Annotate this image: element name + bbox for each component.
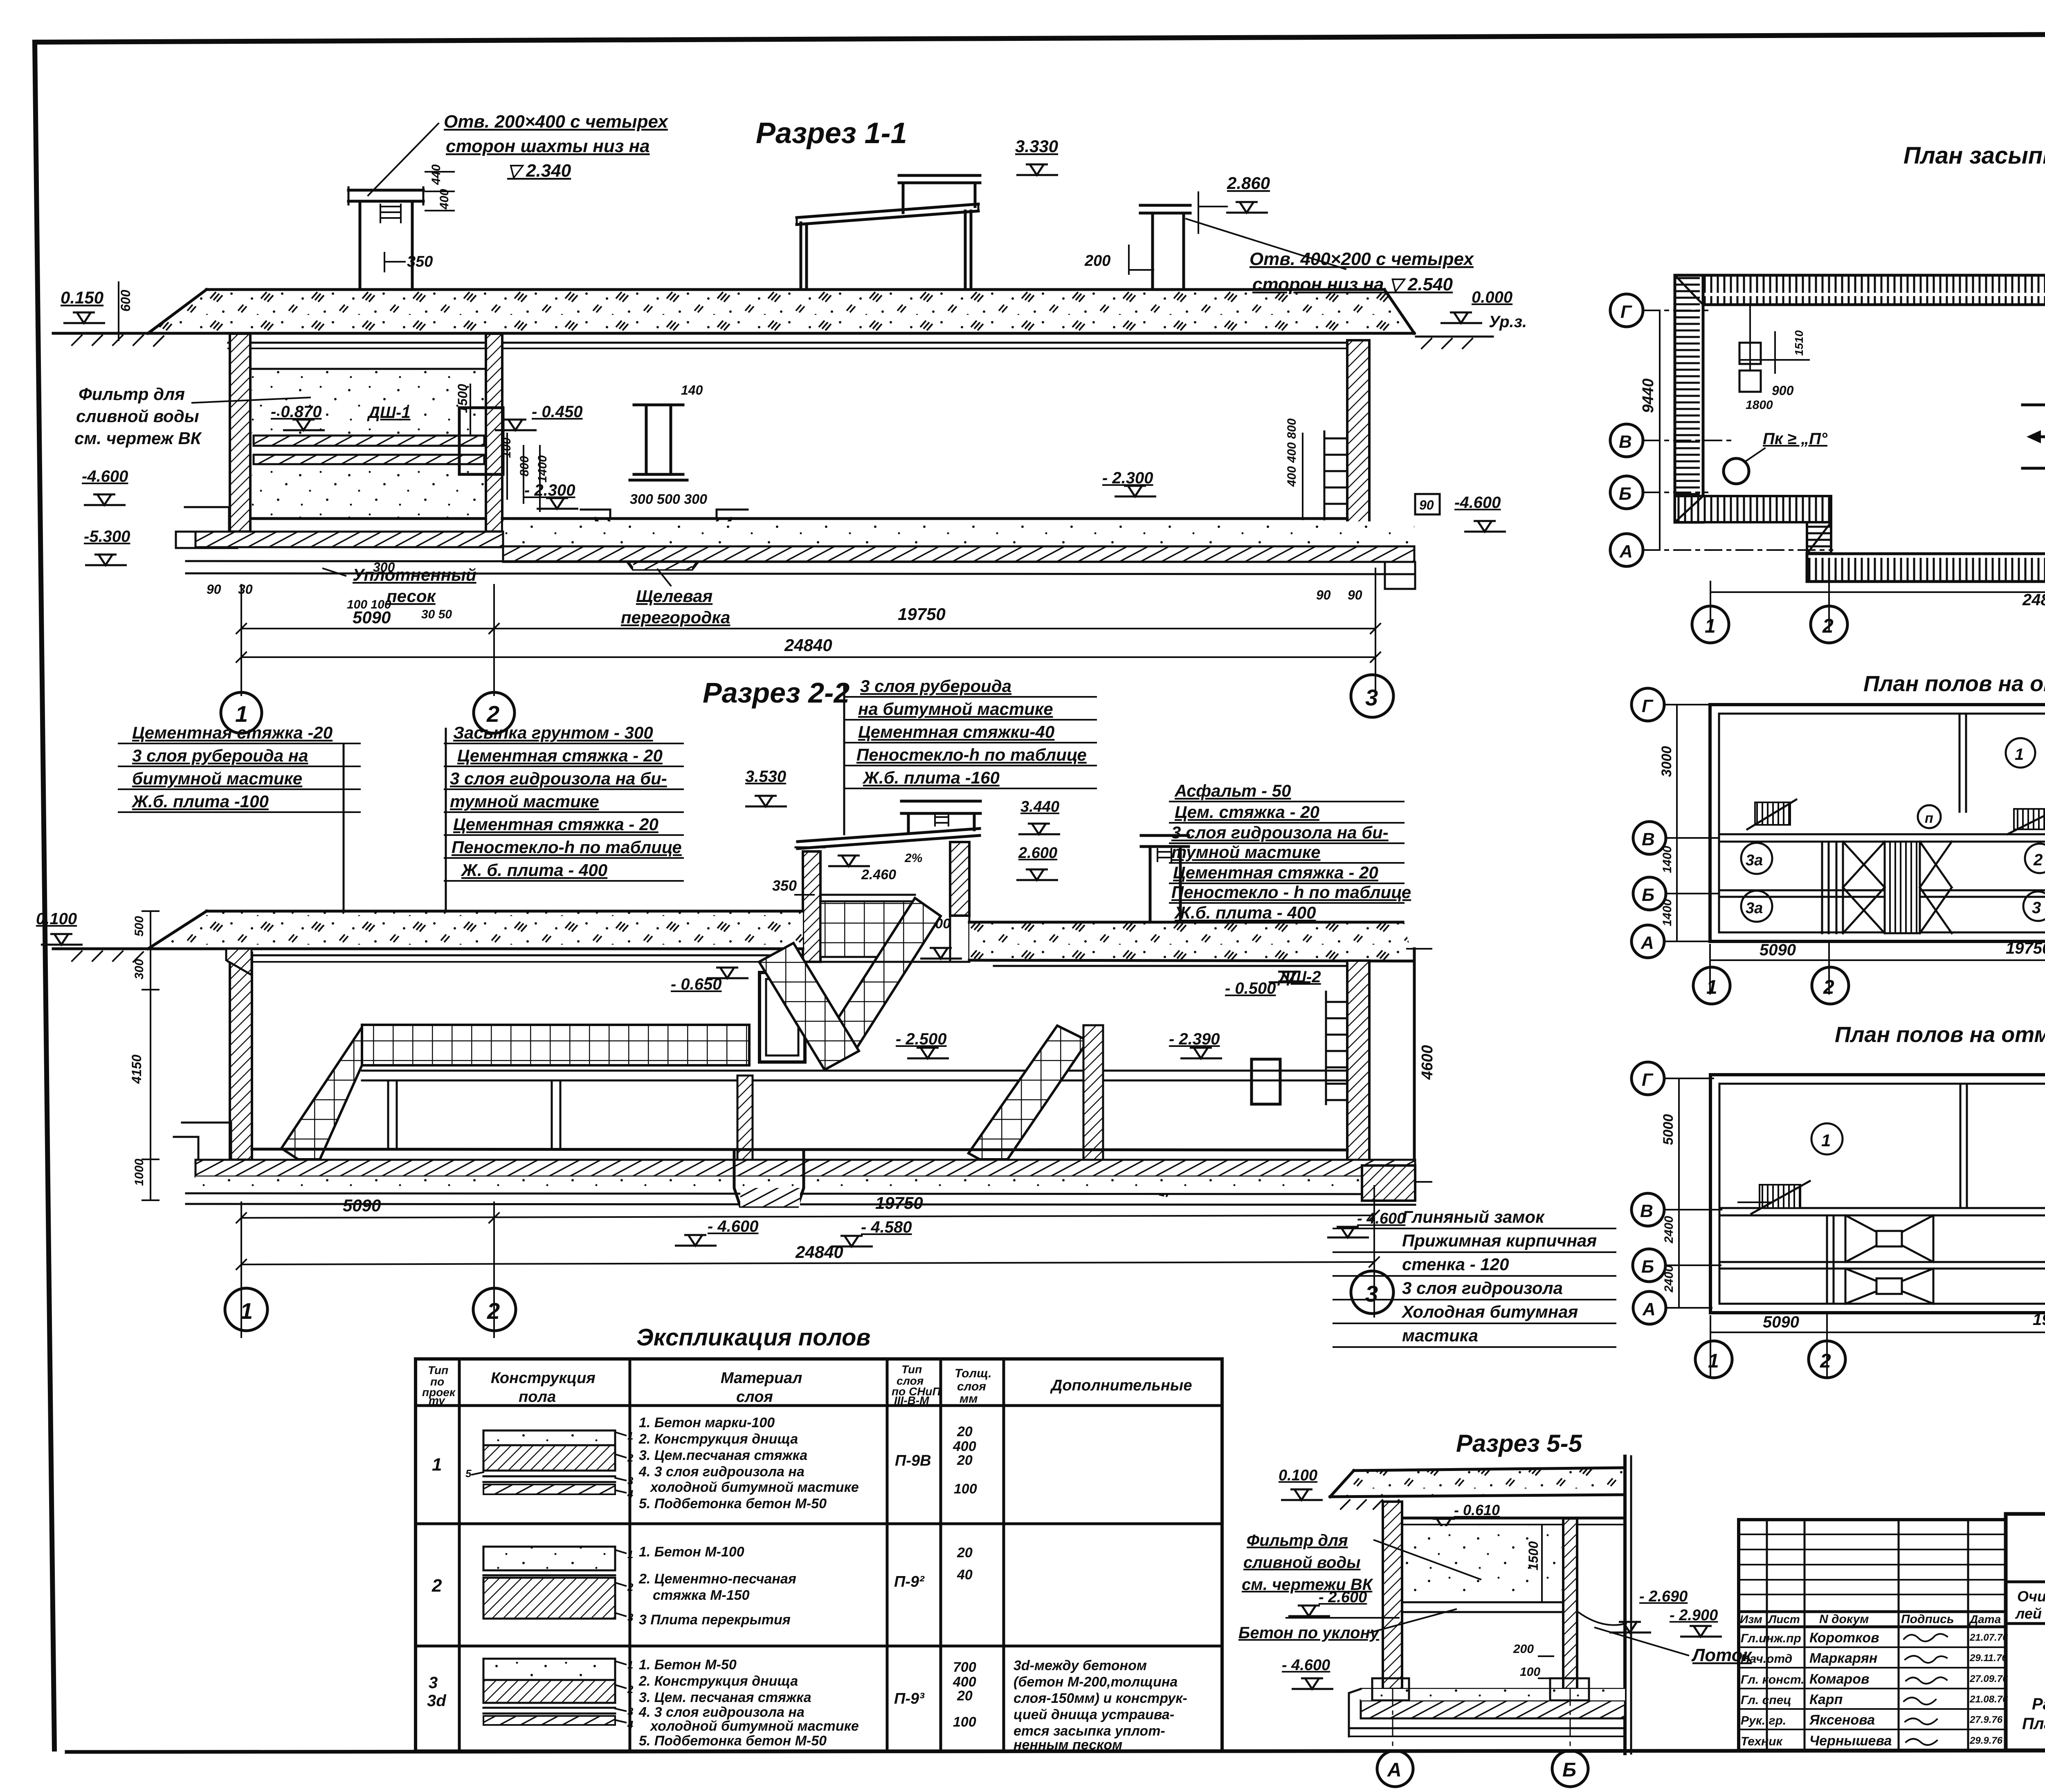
svg-text:200: 200 xyxy=(1084,252,1110,269)
svg-text:4: 4 xyxy=(627,1718,634,1731)
wall band bottom xyxy=(1807,554,2045,582)
roof band 5-5 xyxy=(1330,1468,1625,1497)
page frame xyxy=(35,33,2045,42)
svg-text:27.9.76: 27.9.76 xyxy=(1969,1714,2003,1725)
partition x4467 lower xyxy=(1827,1215,1834,1304)
top-left detail squares xyxy=(1739,343,1761,364)
walkway columns xyxy=(388,1080,560,1149)
svg-text:см. чертеж ВК: см. чертеж ВК xyxy=(74,429,202,448)
svg-text:4. 3 слоя гидроизола на: 4. 3 слоя гидроизола на xyxy=(638,1704,805,1720)
svg-text:Гл. конст.: Гл. конст. xyxy=(1741,1673,1805,1686)
svg-text:Планы полов на отм.-2.500;-4.5: Планы полов на отм.-2.500;-4.580 xyxy=(2022,1715,2045,1733)
roof slab band 2-2 left span xyxy=(148,911,803,949)
left tiled ramp xyxy=(281,1027,362,1170)
signatures xyxy=(1904,1634,1947,1745)
svg-text:1: 1 xyxy=(1708,1350,1719,1372)
svg-text:2: 2 xyxy=(627,1452,634,1464)
svg-text:5: 5 xyxy=(465,1467,472,1480)
svg-text:21.07.76: 21.07.76 xyxy=(1969,1632,2008,1643)
svg-text:5. Подбетонка бетон М-50: 5. Подбетонка бетон М-50 xyxy=(639,1496,827,1511)
svg-text:2.460: 2.460 xyxy=(861,867,896,883)
left wall 5-5 xyxy=(1383,1502,1402,1689)
wall on axis В xyxy=(1719,833,2045,835)
svg-text:24840: 24840 xyxy=(2022,591,2045,609)
svg-text:План засыпки: План засыпки xyxy=(1903,142,2045,169)
svg-text:битумной мастике: битумной мастике xyxy=(132,769,302,788)
outer walls xyxy=(1710,705,2045,941)
svg-text:1400: 1400 xyxy=(536,455,549,483)
svg-text:Яксенова: Яксенова xyxy=(1809,1712,1875,1728)
svg-text:500: 500 xyxy=(133,916,146,936)
svg-text:ДШ-2: ДШ-2 xyxy=(1277,968,1321,986)
bottom slab hatched bands xyxy=(196,532,503,547)
svg-text:тумной мастике: тумной мастике xyxy=(450,792,599,811)
monitor 2-2 chimney xyxy=(901,800,980,803)
svg-text:400 400 800: 400 400 800 xyxy=(1285,418,1299,487)
svg-text:Засыпка грунтом - 300: Засыпка грунтом - 300 xyxy=(453,723,653,742)
wall band top xyxy=(1675,275,2045,305)
foundation pads 5-5 xyxy=(1372,1678,1409,1700)
middle chamber column xyxy=(630,405,687,480)
right mid wall strip xyxy=(1083,1025,1103,1160)
svg-text:3 слоя рубероида на: 3 слоя рубероида на xyxy=(132,746,308,765)
svg-text:Ж.б. плита -160: Ж.б. плита -160 xyxy=(862,768,1000,787)
svg-text:29.9.76: 29.9.76 xyxy=(1969,1735,2003,1746)
funnel 1 xyxy=(1845,1215,1933,1262)
svg-text:- 0.870: - 0.870 xyxy=(271,403,322,421)
svg-text:350: 350 xyxy=(772,877,797,894)
bottom slab dotted band xyxy=(503,521,1414,546)
svg-text:В: В xyxy=(1640,1201,1653,1221)
floor 2-2 xyxy=(252,1149,1347,1150)
svg-text:2. Конструкция днища: 2. Конструкция днища xyxy=(638,1673,798,1689)
svg-text:ется засыпка уплот-: ется засыпка уплот- xyxy=(1014,1723,1165,1739)
svg-text:В: В xyxy=(1619,432,1632,452)
svg-text:90: 90 xyxy=(1419,498,1434,512)
svg-text:3 слоя рубероида: 3 слоя рубероида xyxy=(860,676,1011,696)
svg-text:п: п xyxy=(1925,811,1933,826)
svg-text:20: 20 xyxy=(957,1453,973,1468)
svg-text:800: 800 xyxy=(518,456,531,476)
svg-text:- 4.600: - 4.600 xyxy=(1282,1657,1330,1674)
svg-text:Цементная стяжки-40: Цементная стяжки-40 xyxy=(858,722,1054,741)
svg-text:Разрез 1-1: Разрез 1-1 xyxy=(756,117,907,150)
svg-text:2: 2 xyxy=(1822,615,1834,637)
svg-text:19750: 19750 xyxy=(898,604,946,624)
main stamp frame xyxy=(2006,1514,2045,1750)
svg-text:27.09.76: 27.09.76 xyxy=(1969,1673,2008,1684)
svg-text:А: А xyxy=(1387,1759,1402,1781)
svg-text:Фильтр для: Фильтр для xyxy=(1247,1532,1348,1549)
tiled walkway xyxy=(362,1025,749,1065)
stair icon middle xyxy=(2014,809,2045,829)
bottom slab 5-5 xyxy=(1361,1688,1625,1690)
ladder right wall 2-2 xyxy=(1326,992,1347,1104)
svg-text:3: 3 xyxy=(627,1611,634,1624)
right stair ramp xyxy=(759,943,859,1070)
svg-text:3. Цем. песчаная стяжка: 3. Цем. песчаная стяжка xyxy=(639,1690,811,1705)
svg-text:Цементная стяжка - 20: Цементная стяжка - 20 xyxy=(453,815,658,834)
svg-text:Комаров: Комаров xyxy=(1809,1671,1870,1687)
roof slab band xyxy=(148,290,1414,333)
svg-text:- 0.500: - 0.500 xyxy=(1225,979,1276,997)
dim 24840 bottom xyxy=(1710,591,2045,593)
ladder right wall xyxy=(1324,431,1346,519)
svg-text:Прижимная кирпичная: Прижимная кирпичная xyxy=(1402,1231,1597,1250)
svg-text:3. Цем.песчаная стяжка: 3. Цем.песчаная стяжка xyxy=(639,1448,807,1463)
axis circle 1 (-4.6) xyxy=(1695,1341,1732,1378)
svg-text:1: 1 xyxy=(1706,977,1717,998)
svg-text:сторон низ на ▽ 2.540: сторон низ на ▽ 2.540 xyxy=(1252,274,1453,294)
left dims rotated xyxy=(1676,705,1678,941)
svg-text:Отв. 200×400 с четырех: Отв. 200×400 с четырех xyxy=(444,112,668,132)
svg-text:2: 2 xyxy=(487,1298,500,1324)
ground hatch left 2-2 xyxy=(72,951,143,962)
svg-text:1: 1 xyxy=(2015,746,2024,764)
svg-text:2400: 2400 xyxy=(1662,1216,1676,1244)
wall band left xyxy=(1675,275,1703,522)
svg-text:П-9²: П-9² xyxy=(894,1573,925,1590)
axis circle Б (plan z) xyxy=(1610,476,1643,509)
svg-text:400: 400 xyxy=(953,1674,976,1690)
svg-text:- 2.600: - 2.600 xyxy=(1319,1589,1367,1606)
svg-text:3: 3 xyxy=(1365,685,1378,710)
dimension row 1 xyxy=(241,568,1375,695)
svg-text:5090: 5090 xyxy=(353,608,391,627)
svg-text:- 2.390: - 2.390 xyxy=(1169,1030,1220,1048)
svg-text:2: 2 xyxy=(1820,1350,1831,1372)
svg-text:холодной битумной мастике: холодной битумной мастике xyxy=(649,1718,859,1734)
middle trench 2-2 xyxy=(734,1150,804,1206)
svg-text:на битумной мастике: на битумной мастике xyxy=(858,699,1053,719)
chimney grate xyxy=(380,204,401,222)
svg-text:ДШ-1: ДШ-1 xyxy=(367,404,411,422)
svg-text:0.150: 0.150 xyxy=(61,288,103,307)
right end step xyxy=(1385,562,1415,589)
axis circle 2 (-2.5) xyxy=(1812,967,1849,1004)
svg-text:А: А xyxy=(1640,933,1654,953)
svg-text:2400: 2400 xyxy=(1662,1265,1676,1293)
ground hatch right of slab xyxy=(1416,336,1493,338)
svg-text:перегородка: перегородка xyxy=(621,608,730,627)
svg-text:100: 100 xyxy=(954,1481,977,1497)
right chimney xyxy=(1140,204,1190,207)
svg-text:сливной воды: сливной воды xyxy=(76,406,199,426)
svg-text:сторон шахты низ на: сторон шахты низ на xyxy=(446,136,650,156)
svg-text:3d-между бетоном: 3d-между бетоном xyxy=(1014,1658,1147,1673)
svg-text:0.000: 0.000 xyxy=(1472,288,1512,306)
outer walls xyxy=(1710,1075,2045,1313)
ceiling slab 5-5 xyxy=(1402,1517,1624,1520)
svg-text:0.100: 0.100 xyxy=(1279,1467,1317,1484)
svg-text:3а: 3а xyxy=(1746,900,1763,917)
right outer line and dim 4600 xyxy=(1413,949,1416,1182)
svg-text:600: 600 xyxy=(118,290,133,312)
svg-text:90: 90 xyxy=(1316,588,1331,602)
row1 sketch xyxy=(465,1430,634,1500)
svg-text:30: 30 xyxy=(238,582,253,597)
svg-text:лей с расходом воды 20л/сек: лей с расходом воды 20л/сек при оборотно… xyxy=(2015,1605,2045,1622)
axis circle 2 xyxy=(474,692,515,733)
bottom dims xyxy=(1710,941,2045,994)
svg-text:Разрез 2-2: Разрез 2-2 xyxy=(703,677,849,709)
svg-text:3.530: 3.530 xyxy=(745,768,786,786)
right wall 2-2 xyxy=(1347,961,1369,1177)
svg-text:3: 3 xyxy=(627,1475,634,1487)
right inner wall 5-5 xyxy=(1563,1518,1577,1689)
left axis circles xyxy=(1632,688,1664,721)
axis circle 1 xyxy=(221,692,262,733)
wall band step xyxy=(1807,522,1831,554)
svg-text:4600: 4600 xyxy=(1419,1045,1436,1080)
funnel 2 xyxy=(1845,1269,1933,1304)
svg-text:Экспликация полов: Экспликация полов xyxy=(636,1324,870,1351)
svg-text:3 слоя гидроизола на би-: 3 слоя гидроизола на би- xyxy=(450,769,667,788)
svg-text:- 2.690: - 2.690 xyxy=(1639,1588,1688,1605)
svg-text:20: 20 xyxy=(957,1688,973,1704)
dimension row 2 xyxy=(241,656,1375,658)
svg-text:Коротков: Коротков xyxy=(1809,1630,1879,1646)
svg-text:Цементная стяжка -20: Цементная стяжка -20 xyxy=(132,723,333,742)
floor trench xyxy=(595,519,731,569)
svg-text:Гл. спец: Гл. спец xyxy=(1741,1693,1791,1707)
dim 1500 xyxy=(470,384,471,436)
left dims rotated (-4.6) xyxy=(1678,1078,1680,1308)
bottom dims (-4.6) xyxy=(1710,1313,2045,1377)
monitor 2-2 left post xyxy=(803,851,820,962)
svg-text:Холодная битумная: Холодная битумная xyxy=(1401,1302,1578,1321)
svg-text:1: 1 xyxy=(627,1659,633,1671)
svg-text:900: 900 xyxy=(1772,383,1794,398)
right foundation 2-2 xyxy=(1362,1165,1415,1201)
svg-text:Карп: Карп xyxy=(1809,1692,1843,1707)
svg-text:Фильтр для: Фильтр для xyxy=(79,384,185,404)
svg-text:1: 1 xyxy=(1705,615,1716,637)
svg-text:3: 3 xyxy=(2032,899,2041,917)
svg-text:3: 3 xyxy=(627,1705,634,1718)
svg-text:1800: 1800 xyxy=(1746,398,1773,412)
svg-text:слоя: слоя xyxy=(736,1388,773,1406)
svg-text:Разрезы 1-1; 2-2. План засыпки: Разрезы 1-1; 2-2. План засыпки xyxy=(2032,1695,2045,1713)
row3 sketch xyxy=(483,1659,634,1731)
X braces shaft xyxy=(1843,842,1952,933)
svg-text:1400: 1400 xyxy=(1661,899,1674,926)
axis circle 2 (2-2) xyxy=(473,1288,516,1331)
svg-text:План полов на отм. - 4.600: План полов на отм. - 4.600 xyxy=(1835,1022,2045,1047)
svg-text:Дополнительные: Дополнительные xyxy=(1050,1377,1192,1394)
svg-text:2: 2 xyxy=(1823,977,1834,998)
axis circle 2 (-4.6) xyxy=(1809,1341,1845,1378)
roof slab band 2-2 right span xyxy=(969,922,1414,961)
svg-text:100: 100 xyxy=(953,1714,976,1730)
svg-text:350: 350 xyxy=(407,253,433,270)
svg-text:4: 4 xyxy=(627,1488,634,1500)
chamber fill dots xyxy=(1404,1526,1562,1595)
svg-text:слоя-150мм) и конструк-: слоя-150мм) и конструк- xyxy=(1014,1691,1187,1706)
svg-text:1. Бетон М-50: 1. Бетон М-50 xyxy=(639,1657,737,1673)
middle wall under walkway xyxy=(737,1076,753,1160)
svg-text:Пк ≥ „П°: Пк ≥ „П° xyxy=(1763,430,1828,448)
walkway slab xyxy=(362,1070,1347,1072)
svg-text:III-В-М: III-В-М xyxy=(894,1394,929,1407)
svg-text:- 2.300: - 2.300 xyxy=(1102,469,1153,487)
spec block rules xyxy=(119,743,360,812)
svg-text:-4.600: -4.600 xyxy=(1454,494,1501,512)
svg-text:-5.300: -5.300 xyxy=(84,528,130,546)
right wall axis3 xyxy=(1347,340,1369,546)
axis circle 1 (plan z) xyxy=(1692,606,1729,643)
dim tick left of roof band xyxy=(118,282,119,340)
svg-text:200: 200 xyxy=(1513,1642,1534,1656)
svg-text:- 0.450: - 0.450 xyxy=(532,403,583,421)
svg-text:1: 1 xyxy=(432,1455,442,1475)
svg-text:21.08.76: 21.08.76 xyxy=(1969,1694,2008,1705)
svg-text:3а: 3а xyxy=(1746,852,1763,869)
svg-text:Б: Б xyxy=(1641,1257,1654,1277)
svg-text:Пеностекло - h по таблице: Пеностекло - h по таблице xyxy=(1171,883,1411,902)
svg-text:100: 100 xyxy=(1520,1665,1540,1679)
svg-text:Пеностекло-h по таблице: Пеностекло-h по таблице xyxy=(452,838,682,857)
dim 1500 xyxy=(1541,1525,1543,1602)
left dim chain 2-2 xyxy=(142,911,159,1200)
svg-text:Г: Г xyxy=(1642,696,1654,716)
ramp from monitor down-left xyxy=(829,898,941,1051)
dimension row 2-2 xyxy=(241,1186,1374,1337)
expansion joint door xyxy=(459,408,503,474)
svg-text:- 4.600: - 4.600 xyxy=(708,1217,759,1235)
svg-text:90: 90 xyxy=(207,582,221,597)
svg-text:План полов на отм. - 2.500: План полов на отм. - 2.500 xyxy=(1863,671,2045,696)
svg-text:40: 40 xyxy=(957,1567,973,1583)
svg-text:Дата: Дата xyxy=(1969,1613,2001,1626)
svg-text:3 слоя гидроизола: 3 слоя гидроизола xyxy=(1402,1278,1563,1298)
axis circle А (5-5) xyxy=(1392,1689,1393,1749)
svg-text:Уплотненный: Уплотненный xyxy=(353,565,476,584)
revision table frame xyxy=(1739,1520,2006,1750)
left wall 2-2 xyxy=(230,953,252,1160)
svg-text:19750: 19750 xyxy=(2006,939,2045,957)
svg-text:Нач.отд: Нач.отд xyxy=(1741,1652,1792,1666)
axis circle 1 (2-2) xyxy=(225,1288,267,1331)
svg-text:Подпись: Подпись xyxy=(1901,1612,1954,1626)
svg-text:холодной битумной мастике: холодной битумной мастике xyxy=(649,1480,859,1495)
svg-text:(бетон М-200,толщина: (бетон М-200,толщина xyxy=(1014,1674,1178,1690)
svg-text:Рук. гр.: Рук. гр. xyxy=(1741,1714,1786,1727)
svg-text:2: 2 xyxy=(627,1683,634,1695)
svg-text:19750: 19750 xyxy=(2033,1311,2045,1329)
svg-text:3d: 3d xyxy=(427,1692,447,1710)
svg-text:2: 2 xyxy=(627,1581,634,1593)
svg-text:5090: 5090 xyxy=(1763,1313,1799,1331)
monitor chimney xyxy=(902,183,905,213)
svg-text:19750: 19750 xyxy=(875,1193,923,1213)
entrance ramp xyxy=(2023,405,2045,468)
svg-text:1000: 1000 xyxy=(133,1159,146,1186)
svg-text:Тип: Тип xyxy=(901,1363,922,1376)
svg-text:Толщ.: Толщ. xyxy=(955,1367,992,1380)
svg-text:1: 1 xyxy=(627,1548,633,1561)
svg-text:140: 140 xyxy=(681,383,703,397)
stair icon left (-4.6) xyxy=(1760,1185,1800,1208)
svg-text:2. Конструкция днища: 2. Конструкция днища xyxy=(638,1431,798,1447)
svg-text:400: 400 xyxy=(953,1439,976,1454)
svg-text:Цементная стяжка - 20: Цементная стяжка - 20 xyxy=(1173,863,1378,882)
note Отв.400х200 xyxy=(1186,219,1346,269)
monitor landing slab xyxy=(820,895,915,901)
svg-text:3: 3 xyxy=(1365,1281,1378,1307)
axis circle 3 (2-2) xyxy=(1351,1271,1393,1314)
svg-text:Бетон по уклону: Бетон по уклону xyxy=(1238,1624,1380,1642)
svg-text:мм: мм xyxy=(960,1392,978,1406)
wall on axis Б (-4.6) xyxy=(1719,1261,2045,1263)
svg-text:А: А xyxy=(1642,1299,1656,1319)
svg-text:90: 90 xyxy=(1348,588,1362,602)
right chamber ramp xyxy=(969,1026,1088,1170)
svg-text:Лист: Лист xyxy=(1768,1613,1800,1626)
svg-text:А: А xyxy=(1619,541,1633,561)
svg-text:слоя: слоя xyxy=(957,1380,986,1393)
svg-text:20: 20 xyxy=(957,1545,973,1561)
svg-text:Г: Г xyxy=(1620,302,1632,322)
svg-text:N докум: N докум xyxy=(1819,1612,1869,1626)
dim 9440 xyxy=(1659,310,1661,550)
filter slab bands xyxy=(254,436,484,446)
axis circle Б (5-5) xyxy=(1570,1689,1571,1749)
svg-text:Щелевая: Щелевая xyxy=(636,586,712,606)
svg-text:П-9В: П-9В xyxy=(895,1452,931,1469)
svg-text:- 2.900: - 2.900 xyxy=(1670,1607,1718,1624)
svg-text:стяжка М-150: стяжка М-150 xyxy=(653,1588,750,1603)
svg-text:Разрез 5-5: Разрез 5-5 xyxy=(1456,1430,1583,1457)
svg-text:29.11.76: 29.11.76 xyxy=(1969,1653,2007,1664)
svg-text:5090: 5090 xyxy=(1760,941,1796,959)
svg-text:Ур.з.: Ур.з. xyxy=(1489,313,1527,331)
svg-text:Цем. стяжка - 20: Цем. стяжка - 20 xyxy=(1175,802,1319,822)
door opening xyxy=(760,972,805,1062)
row2 sketch xyxy=(483,1547,634,1624)
svg-text:Глиняный замок: Глиняный замок xyxy=(1402,1207,1545,1226)
svg-text:0.100: 0.100 xyxy=(36,910,77,928)
svg-text:мастика: мастика xyxy=(1402,1326,1478,1345)
svg-text:- 0.610: - 0.610 xyxy=(1454,1502,1500,1518)
wall on axis В (-4.6) xyxy=(1719,1207,2045,1209)
middle shaft walls xyxy=(1822,842,1843,933)
svg-text:300 500 300: 300 500 300 xyxy=(630,492,707,507)
svg-text:Б: Б xyxy=(1562,1759,1576,1781)
svg-text:Б: Б xyxy=(1642,885,1654,905)
svg-text:Гл.инж.пр: Гл.инж.пр xyxy=(1741,1632,1801,1645)
svg-text:стенка - 120: стенка - 120 xyxy=(1402,1255,1509,1274)
svg-text:24840: 24840 xyxy=(784,636,832,655)
stair treads shaft xyxy=(1885,842,1920,933)
svg-text:3.440: 3.440 xyxy=(1020,798,1059,815)
svg-text:▽ 2.340: ▽ 2.340 xyxy=(507,161,571,181)
axis circle 3 xyxy=(1351,675,1393,717)
svg-text:2.860: 2.860 xyxy=(1227,173,1270,193)
stair icon left xyxy=(1755,802,1790,825)
svg-text:5000: 5000 xyxy=(1661,1114,1676,1145)
svg-text:Очистные сооружения для сто: Очистные сооружения для сточных вод от м… xyxy=(2017,1588,2045,1605)
svg-text:Тип: Тип xyxy=(428,1364,448,1377)
floor slab 5-5 xyxy=(1402,1601,1563,1603)
svg-text:- 4.600: - 4.600 xyxy=(1357,1210,1405,1227)
svg-text:Асфальт - 50: Асфальт - 50 xyxy=(1174,781,1291,800)
monitor tiled face xyxy=(820,901,915,957)
svg-text:5. Подбетонка бетон М-50: 5. Подбетонка бетон М-50 xyxy=(639,1733,827,1749)
svg-text:Маркарян: Маркарян xyxy=(1809,1651,1877,1666)
axis circle В (plan z) xyxy=(1610,424,1643,457)
svg-text:Чернышева: Чернышева xyxy=(1809,1733,1892,1749)
